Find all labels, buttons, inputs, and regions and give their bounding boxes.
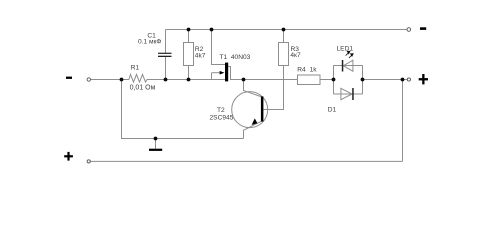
svg-text:T1 40N03: T1 40N03 [220,54,251,61]
svg-text:0,01 Ом: 0,01 Ом [130,85,156,92]
svg-text:T2: T2 [217,107,225,114]
svg-text:4k7: 4k7 [195,53,206,60]
svg-text:1k: 1k [310,67,318,74]
svg-text:2SC945: 2SC945 [210,115,234,122]
svg-text:0.1 мкФ: 0.1 мкФ [138,39,161,46]
svg-text:R1: R1 [131,64,140,71]
svg-text:LED1: LED1 [337,45,354,52]
svg-text:R4: R4 [297,67,306,74]
svg-text:D1: D1 [328,107,337,114]
svg-text:4к7: 4к7 [290,52,301,59]
